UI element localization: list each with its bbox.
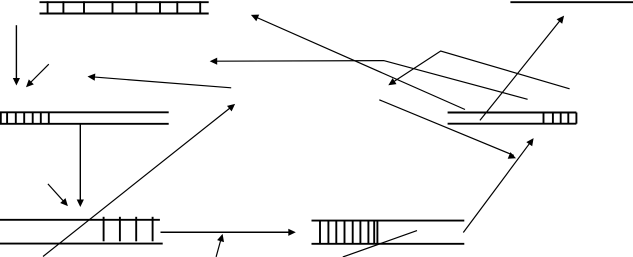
array A3 (bottom-left segmented bar) bbox=[0, 217, 163, 244]
arrow S (steep, through array A5, pointing up-right) bbox=[480, 16, 564, 121]
arrow V2 (vertical from array A2 down, pointing down) bbox=[77, 124, 84, 207]
array A4 (bottom-middle segmented bar) bbox=[312, 221, 465, 244]
arrow L1 (long diagonal to top-middle, pointing up-left) bbox=[251, 15, 465, 110]
array A2 (left-middle segmented bar) bbox=[0, 112, 169, 124]
arrow R1 (gentle diagonal, pointing down-right) bbox=[379, 100, 516, 159]
arrow D2 (short diagonal, pointing down-right) bbox=[48, 184, 68, 206]
array A1 (top-left segmented bar) bbox=[40, 1, 209, 14]
arrow V1 (vertical, top-left, pointing down) bbox=[13, 25, 20, 85]
line T4 (diagonal crossing array A4) bbox=[343, 231, 417, 257]
arrow D1 (short diagonal, pointing down-left) bbox=[26, 64, 49, 87]
arrow U1 (from array A4 right end, pointing up-right) bbox=[463, 138, 533, 232]
arrow DG (long diagonal from bottom-left, pointing up-right) bbox=[43, 104, 235, 257]
arrow H1 (long, pointing left at mid-left) bbox=[88, 74, 232, 88]
arrow U2 (small, below H3, pointing up) bbox=[216, 234, 224, 257]
arrow BC (bent line peak at 441,51, pointing down-left) bbox=[388, 51, 569, 89]
arrow H2 (bent line from right, pointing left, upper middle) bbox=[210, 58, 528, 100]
array A5 (right-middle segmented bar) bbox=[448, 113, 577, 124]
arrow H3 (bottom, array A3 to A4, pointing right) bbox=[161, 229, 296, 236]
line TR (horizontal segment, top-right) bbox=[510, 1, 633, 3]
